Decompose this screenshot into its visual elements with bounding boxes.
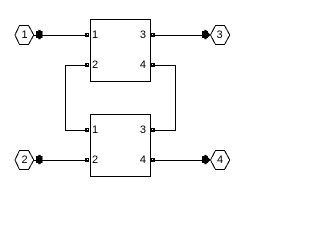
junction on input 2 link [36, 155, 43, 164]
junction on input 1 link [36, 30, 43, 39]
pin 4 of U1 [151, 63, 155, 67]
arrow junction into output 3 [202, 30, 211, 39]
svg-text:1: 1 [92, 29, 98, 41]
svg-text:2: 2 [92, 59, 98, 71]
svg-text:4: 4 [140, 154, 146, 166]
pin 2 of U1 [85, 63, 89, 67]
input port 2 (hexagon) [15, 151, 34, 170]
wire: U1 pin 4 to U2 pin 3 (right crossover) [155, 66, 176, 131]
svg-text:3: 3 [140, 29, 146, 41]
svg-text:4: 4 [140, 59, 146, 71]
arrow junction into output 4 [202, 155, 211, 164]
wire: U2 pin 4 to output port 4 [155, 160, 204, 162]
pin 3 of U2 [151, 128, 155, 132]
svg-text:1: 1 [21, 29, 27, 41]
wire: U1 pin 3 to output port 3 [155, 35, 204, 37]
svg-text:2: 2 [92, 154, 98, 166]
wire: input port 1 to U1 pin 1 [34, 35, 86, 37]
pin 4 of U2 [151, 158, 155, 162]
pin 1 of U2 [85, 128, 89, 132]
svg-text:3: 3 [216, 29, 222, 41]
svg-text:1: 1 [92, 124, 98, 136]
pin 1 of U1 [85, 33, 89, 37]
block U2 (bottom) [91, 115, 151, 177]
wire: input port 2 to U2 pin 2 [34, 160, 86, 162]
output port 3 (hexagon) [211, 26, 230, 45]
svg-text:3: 3 [140, 124, 146, 136]
output port 4 (hexagon) [211, 151, 230, 170]
svg-text:2: 2 [21, 154, 27, 166]
wire: U1 pin 2 to U2 pin 1 (left crossover) [66, 66, 87, 131]
block U1 (top) [91, 20, 151, 82]
pin 2 of U2 [85, 158, 89, 162]
svg-text:4: 4 [217, 154, 223, 166]
pin 3 of U1 [151, 33, 155, 37]
input port 1 (hexagon) [15, 26, 34, 45]
